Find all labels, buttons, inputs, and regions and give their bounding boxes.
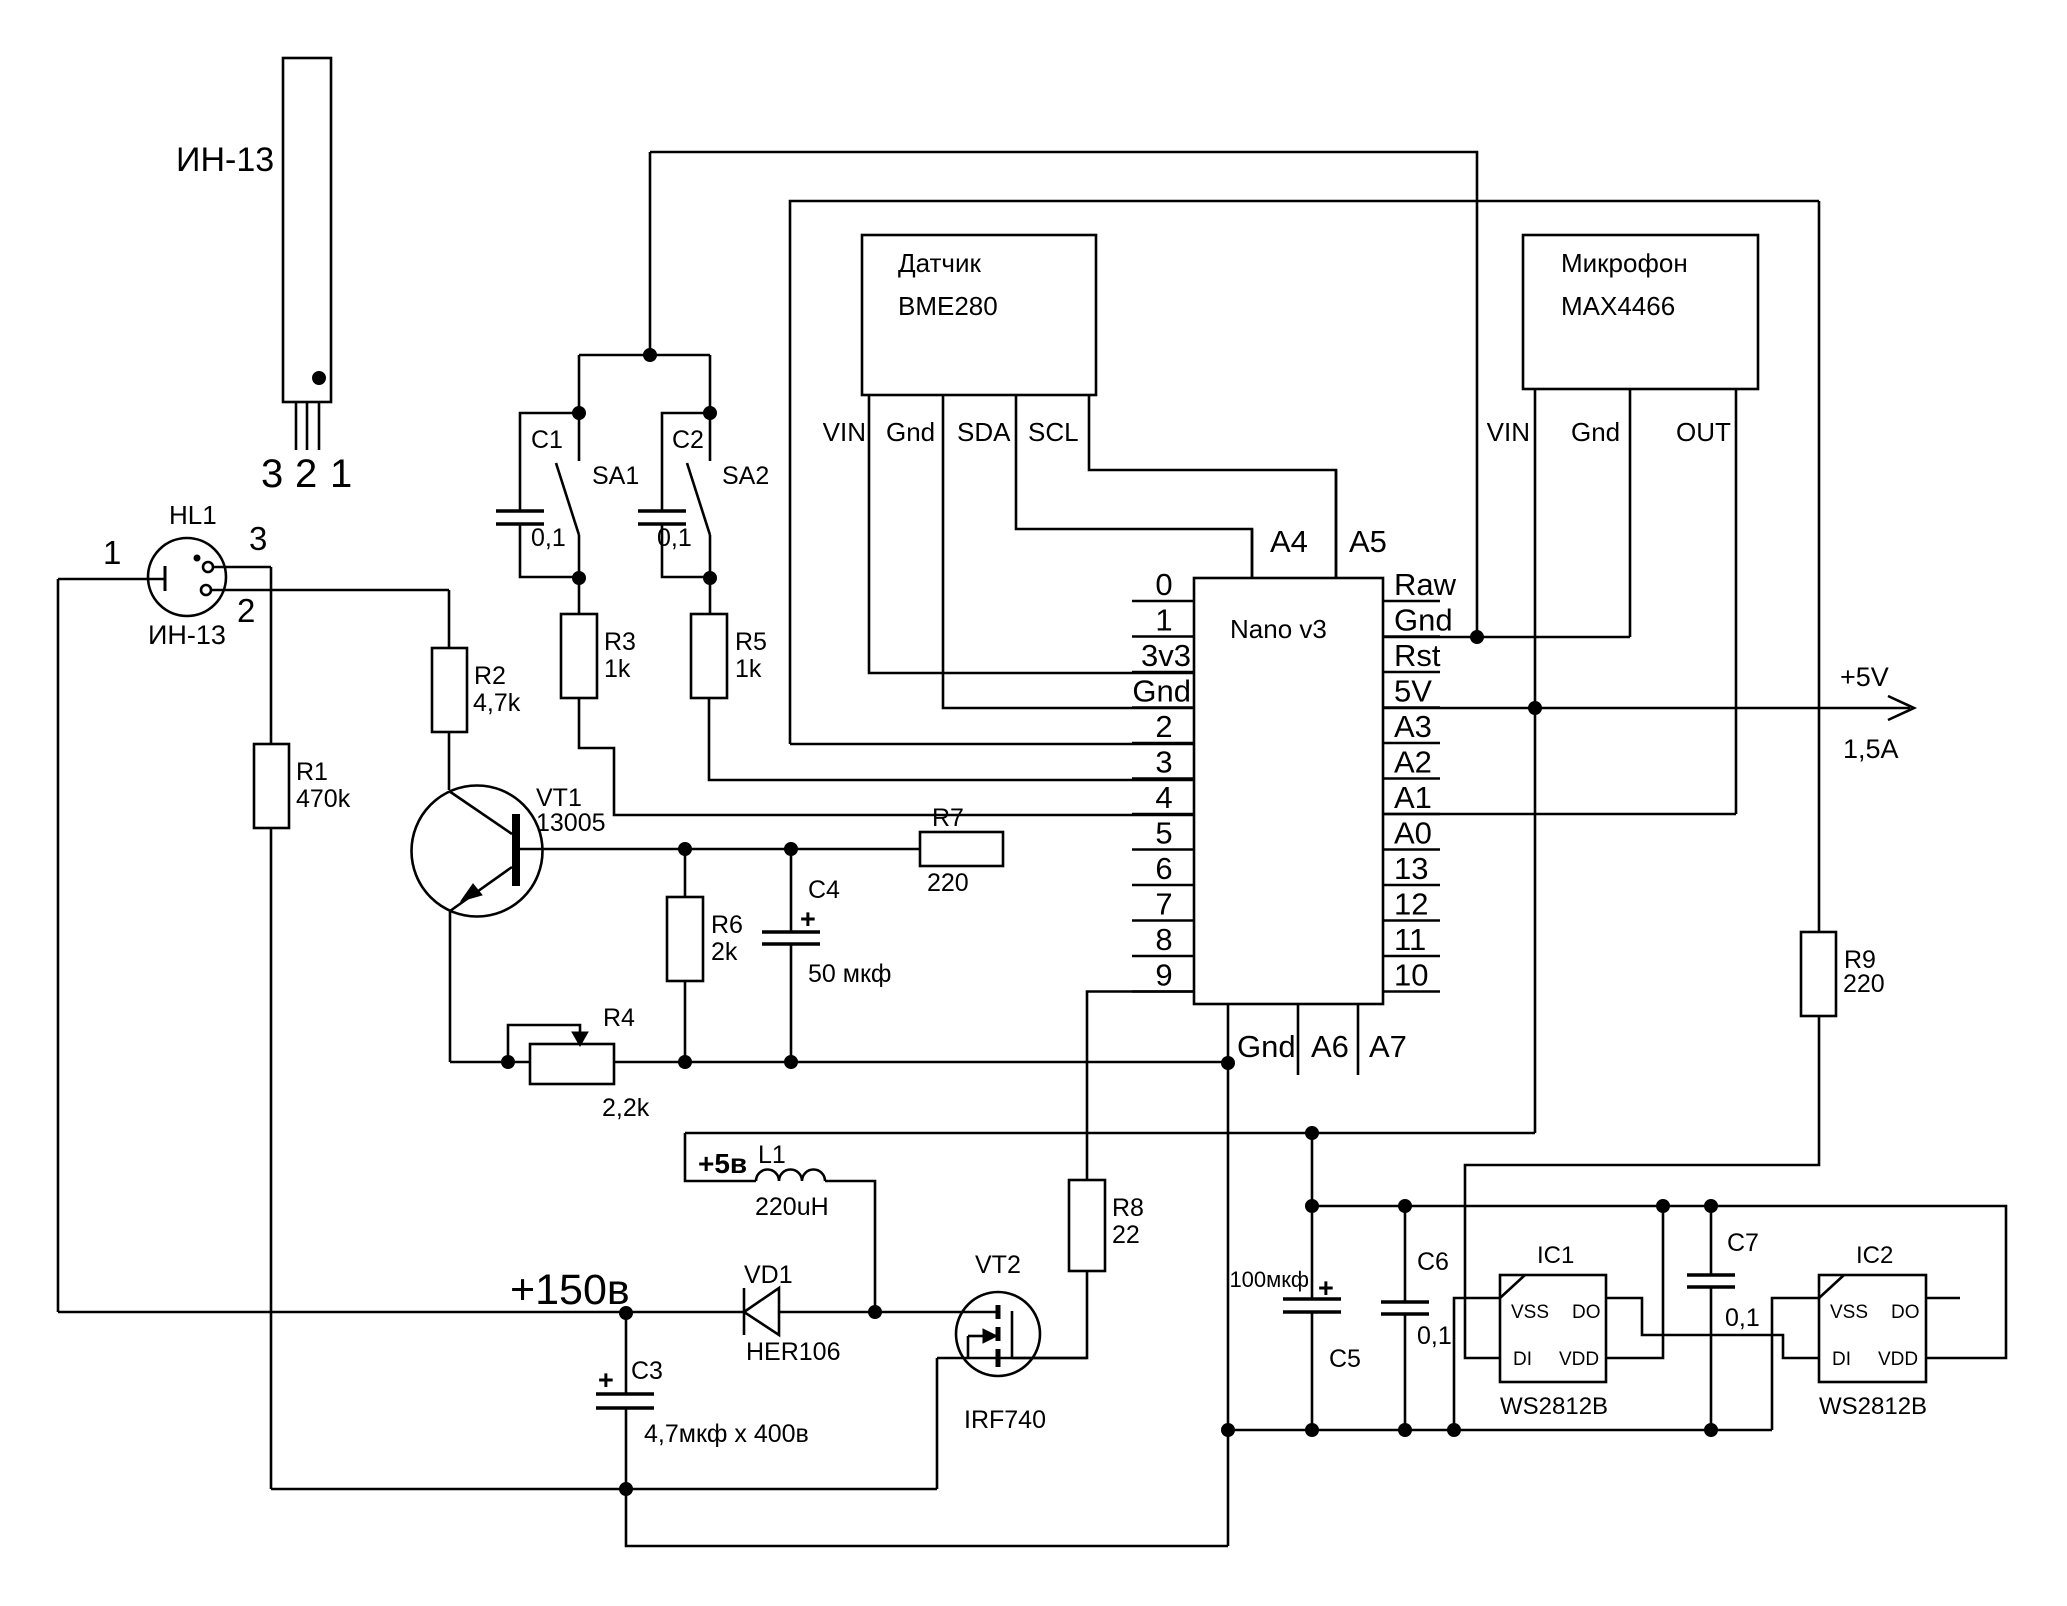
svg-text:Rst: Rst bbox=[1394, 638, 1441, 673]
wire R5 to Nano pin3 bbox=[709, 698, 1194, 780]
BME280 SDA pin wire bbox=[1016, 395, 1252, 578]
svg-text:0,1: 0,1 bbox=[1417, 1322, 1452, 1350]
wire HL1 pin3 down to R1 bbox=[270, 567, 273, 744]
value C2 0,1 bbox=[657, 524, 692, 552]
label C4 bbox=[808, 876, 840, 904]
pin number 3 of tube bbox=[261, 452, 283, 496]
wire down to C1-SA1 node bbox=[578, 355, 581, 413]
value C4 50 mkf bbox=[808, 960, 891, 988]
label Nano v3 bbox=[1230, 614, 1327, 644]
VT2 source-gate bottom line bbox=[937, 1357, 1087, 1360]
label VT1 bbox=[536, 784, 582, 812]
wire top junction down from +5V top line bbox=[649, 152, 652, 355]
R4 wiper hook bbox=[508, 1025, 580, 1062]
label C7 bbox=[1727, 1229, 1759, 1257]
wire R6 to ground line bbox=[684, 981, 687, 1062]
value R9 220 bbox=[1843, 970, 1885, 998]
svg-text:+: + bbox=[800, 904, 816, 934]
wire R1 down to ground corner bbox=[270, 828, 273, 1489]
label C3 bbox=[631, 1357, 663, 1385]
pin label 11 right bbox=[1394, 922, 1426, 957]
svg-text:100мкф: 100мкф bbox=[1229, 1267, 1309, 1292]
svg-text:VDD: VDD bbox=[1559, 1349, 1599, 1370]
label SA2 bbox=[722, 462, 769, 490]
svg-text:10: 10 bbox=[1394, 958, 1428, 993]
pin label VDD of IC1 bbox=[1559, 1349, 1599, 1370]
IC1 DO pin wire bbox=[1606, 1298, 1819, 1358]
pin label SDA of BME280 bbox=[957, 417, 1011, 447]
junction C1-SA1 bottom node bbox=[573, 572, 586, 585]
value C3 4,7mkf x 400v bbox=[644, 1420, 809, 1448]
svg-text:Gnd: Gnd bbox=[1132, 674, 1191, 709]
IN-13 bargraph tube outline bbox=[283, 58, 331, 402]
label +5V bbox=[1840, 662, 1889, 692]
junction C2-SA2 top node bbox=[704, 407, 717, 420]
Nano right pin Rst stub bbox=[1383, 671, 1440, 674]
capacitor C6 top lead bbox=[1404, 1206, 1407, 1302]
Nano right pin 12 stub bbox=[1383, 919, 1440, 922]
junction ground rail at IC1 VSS bbox=[1448, 1424, 1461, 1437]
value C7 0,1 bbox=[1725, 1304, 1760, 1332]
capacitor C6 plates bbox=[1381, 1302, 1429, 1314]
wire VD1 node to VT2 drain bbox=[875, 1311, 996, 1314]
capacitor C5 bottom lead bbox=[1311, 1312, 1314, 1430]
pin label Gnd bottom bbox=[1237, 1029, 1296, 1064]
Nano right pin A1 stub bbox=[1383, 813, 1440, 816]
junction C5 at +5v line bbox=[1306, 1127, 1319, 1140]
wire R2 to VT1 collector bbox=[448, 731, 451, 790]
resistor R2 bbox=[432, 648, 467, 732]
VT1 base bar bbox=[512, 814, 520, 886]
svg-text:470k: 470k bbox=[296, 785, 351, 813]
wire LED +5V rail bbox=[1312, 1206, 2006, 1358]
svg-text:HL1: HL1 bbox=[169, 500, 217, 530]
svg-text:SCL: SCL bbox=[1028, 417, 1079, 447]
value R1 470k bbox=[296, 785, 351, 813]
svg-text:0,1: 0,1 bbox=[1725, 1304, 1760, 1332]
pin label 1 left bbox=[1155, 603, 1172, 638]
svg-text:A3: A3 bbox=[1394, 709, 1432, 744]
label C6 bbox=[1417, 1248, 1449, 1276]
svg-text:DO: DO bbox=[1572, 1302, 1601, 1323]
wire top bus to Gnd net bbox=[650, 152, 1477, 637]
svg-text:0,1: 0,1 bbox=[531, 524, 566, 552]
pin label VSS of IC2 bbox=[1830, 1302, 1868, 1323]
junction top bus bbox=[644, 349, 657, 362]
wire node to R5 bbox=[709, 578, 712, 614]
pin label OUT of MAX4466 bbox=[1676, 417, 1731, 447]
pin number 3 of HL1 bbox=[249, 520, 267, 557]
+5V arrow head bbox=[1888, 696, 1914, 720]
svg-text:VT1: VT1 bbox=[536, 784, 582, 812]
junction 5V net bbox=[1529, 702, 1542, 715]
svg-text:5V: 5V bbox=[1394, 674, 1432, 709]
svg-text:22: 22 bbox=[1112, 1221, 1140, 1249]
wire ground line left bbox=[450, 1061, 1228, 1064]
capacitor C4 plates bbox=[762, 932, 820, 944]
pin label VIN of MAX4466 bbox=[1487, 417, 1530, 447]
pin label DO of IC2 bbox=[1891, 1302, 1920, 1323]
svg-text:IC1: IC1 bbox=[1537, 1242, 1574, 1269]
resistor R7 bbox=[920, 832, 1003, 866]
value VD1 HER106 bbox=[746, 1338, 841, 1366]
MAX4466 VIN pin wire down to +5V net bbox=[1534, 389, 1537, 1133]
resistor R5 bbox=[691, 614, 727, 698]
svg-text:VIN: VIN bbox=[823, 417, 866, 447]
IC Nano v3 box bbox=[1194, 578, 1383, 1004]
wire Nano pin9 to R8 bbox=[1087, 992, 1194, 1181]
pin number 1 of tube bbox=[330, 452, 352, 496]
svg-text:HER106: HER106 bbox=[746, 1338, 841, 1366]
wire node to R3 bbox=[578, 578, 581, 614]
svg-text:13: 13 bbox=[1394, 851, 1428, 886]
svg-text:5: 5 bbox=[1155, 816, 1172, 851]
label +5v bbox=[698, 1148, 747, 1179]
svg-text:13005: 13005 bbox=[536, 809, 606, 837]
capacitor C6 bottom lead bbox=[1404, 1314, 1407, 1430]
IN-13 tube pin 2 lead bbox=[306, 402, 309, 450]
svg-text:IRF740: IRF740 bbox=[964, 1406, 1046, 1434]
pin label 5 left bbox=[1155, 816, 1172, 851]
svg-text:Raw: Raw bbox=[1394, 567, 1457, 602]
wire +5v corner to L1 bbox=[685, 1133, 756, 1181]
junction ground line at Gnd pin bbox=[1222, 1057, 1235, 1070]
svg-text:VSS: VSS bbox=[1511, 1302, 1549, 1323]
svg-text:4,7мкф x 400в: 4,7мкф x 400в bbox=[644, 1420, 809, 1448]
pin label 3v3 left bbox=[1141, 638, 1191, 673]
svg-text:2: 2 bbox=[295, 452, 317, 496]
Nano right pin A3 stub bbox=[1383, 742, 1440, 745]
svg-text:VIN: VIN bbox=[1487, 417, 1530, 447]
svg-text:WS2812B: WS2812B bbox=[1500, 1393, 1608, 1420]
pin label A2 right bbox=[1394, 745, 1432, 780]
junction rail at C7 bbox=[1705, 1200, 1718, 1213]
svg-text:VT2: VT2 bbox=[975, 1251, 1021, 1279]
switch SA2 blade bbox=[687, 463, 710, 535]
MAX4466 OUT pin wire bbox=[1735, 389, 1738, 814]
svg-text:3: 3 bbox=[261, 452, 283, 496]
pin label DO of IC1 bbox=[1572, 1302, 1601, 1323]
junction ground rail at Gnd lead bbox=[1222, 1424, 1235, 1437]
capacitor C2 top lead bbox=[662, 413, 710, 511]
svg-text:1,5A: 1,5A bbox=[1843, 734, 1899, 764]
Nano left pin 3v3 stub bbox=[1132, 671, 1194, 674]
resistor R8 bbox=[1069, 1180, 1105, 1271]
junction R6 bottom bbox=[679, 1056, 692, 1069]
wire HL1 pin3 to R1 bbox=[213, 566, 271, 569]
capacitor C3 top lead bbox=[625, 1313, 628, 1394]
wire C3 bottom to VT2 source bbox=[626, 1488, 937, 1491]
VT1 collector diagonal bbox=[449, 791, 512, 834]
switch SA2 bottom contact bbox=[709, 535, 712, 578]
pin label 5V right bbox=[1394, 674, 1432, 709]
svg-text:ИН-13: ИН-13 bbox=[176, 141, 274, 179]
label VT2 bbox=[975, 1251, 1021, 1279]
pin label VDD of IC2 bbox=[1878, 1349, 1918, 1370]
svg-text:2: 2 bbox=[1155, 709, 1172, 744]
pin label A4 bbox=[1270, 524, 1308, 559]
svg-text:50 мкф: 50 мкф bbox=[808, 960, 891, 988]
svg-text:A6: A6 bbox=[1311, 1029, 1349, 1064]
inductor L1 coil bbox=[756, 1170, 825, 1182]
BME280 Gnd pin wire bbox=[943, 395, 1194, 708]
svg-text:R2: R2 bbox=[474, 662, 506, 690]
pin label 2 left bbox=[1155, 709, 1172, 744]
svg-text:9: 9 bbox=[1155, 958, 1172, 993]
wire HL1 pin2 down to R2 bbox=[448, 590, 451, 648]
value R2 4,7k bbox=[473, 689, 521, 717]
wire R9 net top vertical bbox=[1818, 201, 1821, 932]
potentiometer R4 body bbox=[530, 1044, 614, 1084]
IC1 VDD pin wire bbox=[1606, 1206, 1663, 1358]
svg-text:SDA: SDA bbox=[957, 417, 1011, 447]
svg-text:C7: C7 bbox=[1727, 1229, 1759, 1257]
pin label Raw right bbox=[1394, 567, 1457, 602]
value C5 100mkf bbox=[1229, 1267, 1309, 1292]
value R8 22 bbox=[1112, 1221, 1140, 1249]
label IN-13 tube type bbox=[176, 141, 274, 179]
pin label A5 bbox=[1349, 524, 1387, 559]
svg-text:VD1: VD1 bbox=[744, 1261, 793, 1289]
resistor R9 bbox=[1801, 932, 1836, 1016]
svg-text:C1: C1 bbox=[531, 426, 563, 454]
svg-text:BME280: BME280 bbox=[898, 291, 998, 321]
svg-text:1: 1 bbox=[330, 452, 352, 496]
pin label 0 left bbox=[1155, 567, 1172, 602]
VT2 substrate arrow bbox=[968, 1329, 997, 1343]
svg-text:VDD: VDD bbox=[1878, 1349, 1918, 1370]
IC2 WS2812B box bbox=[1819, 1275, 1926, 1382]
Nano right pin A0 stub bbox=[1383, 848, 1440, 851]
Nano left pin 8 stub bbox=[1132, 955, 1194, 958]
MAX4466 Gnd pin wire bbox=[1629, 389, 1632, 637]
wire HL1 pin1 down left side bbox=[57, 579, 60, 1312]
svg-text:A0: A0 bbox=[1394, 816, 1432, 851]
svg-text:R7: R7 bbox=[932, 804, 964, 832]
junction R4 wiper to line bbox=[502, 1056, 515, 1069]
capacitor C5 plates bbox=[1283, 1299, 1341, 1312]
junction C1-SA1 top node bbox=[573, 407, 586, 420]
svg-text:0: 0 bbox=[1155, 567, 1172, 602]
capacitor C7 bottom lead bbox=[1710, 1287, 1713, 1430]
svg-text:IC2: IC2 bbox=[1856, 1242, 1893, 1269]
HL1 pin2 contact circle bbox=[201, 585, 211, 595]
wire +150V rail bbox=[58, 1311, 626, 1314]
svg-text:C3: C3 bbox=[631, 1357, 663, 1385]
svg-text:+: + bbox=[598, 1365, 614, 1395]
junction ground rail at C7 bbox=[1705, 1424, 1718, 1437]
pin label Gnd left bbox=[1132, 674, 1191, 709]
value IC2 WS2812B bbox=[1819, 1393, 1927, 1420]
value IC1 WS2812B bbox=[1500, 1393, 1608, 1420]
pin number 2 of tube bbox=[295, 452, 317, 496]
svg-text:DI: DI bbox=[1832, 1349, 1851, 1370]
wire pin2 horizontal bbox=[790, 743, 1194, 746]
pin label A1 right bbox=[1394, 780, 1432, 815]
VT2 gate bar bbox=[1011, 1311, 1014, 1358]
wire VT2 source down bbox=[936, 1358, 939, 1489]
wire VT1 emitter down bbox=[449, 911, 452, 1062]
svg-text:4: 4 bbox=[1155, 780, 1172, 815]
Nano right pin 10 stub bbox=[1383, 990, 1440, 993]
IC2 chamfer bbox=[1819, 1275, 1844, 1298]
svg-text:12: 12 bbox=[1394, 887, 1428, 922]
capacitor C7 top lead bbox=[1710, 1206, 1713, 1275]
junction R6 top bbox=[679, 843, 692, 856]
pin label 6 left bbox=[1155, 851, 1172, 886]
Nano right pin 5V stub bbox=[1383, 706, 1440, 709]
pin number 2 of HL1 bbox=[237, 592, 255, 629]
C5 polarity plus bbox=[1318, 1273, 1334, 1303]
wire +5v rail to C5 and 5V net bbox=[685, 1132, 1535, 1135]
value VT2 IRF740 bbox=[964, 1406, 1046, 1434]
diode VD1 cathode bar bbox=[743, 1288, 746, 1335]
pin label 12 right bbox=[1394, 887, 1428, 922]
label R7 bbox=[932, 804, 964, 832]
svg-text:R4: R4 bbox=[603, 1004, 635, 1032]
HL1 internal electrode bar bbox=[164, 566, 167, 591]
junction VD1 L1 VT2 node bbox=[869, 1306, 882, 1319]
value R7 220 bbox=[927, 869, 969, 897]
label C1 bbox=[531, 426, 563, 454]
capacitor C5 top lead bbox=[1311, 1133, 1314, 1299]
svg-text:220: 220 bbox=[927, 869, 969, 897]
label HL1 type IN-13 bbox=[148, 620, 226, 650]
svg-text:+5V: +5V bbox=[1840, 662, 1889, 692]
junction rail at C5 bbox=[1306, 1200, 1319, 1213]
wire +150V to VD1 bbox=[626, 1311, 744, 1314]
pin label 10 right bbox=[1394, 958, 1428, 993]
VT1 emitter diagonal bbox=[450, 867, 512, 911]
resistor R1 bbox=[254, 744, 289, 828]
wire HL1 pin2 to R2 bbox=[211, 589, 449, 592]
IN-13 tube pin 3 lead bbox=[295, 402, 298, 450]
value R4 2,2k bbox=[602, 1094, 650, 1122]
label MAX4466 bbox=[1561, 291, 1675, 321]
label R8 bbox=[1112, 1194, 1144, 1222]
Nano left pin 0 stub bbox=[1132, 600, 1194, 603]
pin label 13 right bbox=[1394, 851, 1428, 886]
resistor R6 bbox=[667, 897, 703, 981]
svg-text:Nano v3: Nano v3 bbox=[1230, 614, 1327, 644]
svg-text:+150в: +150в bbox=[510, 1266, 630, 1314]
wire base line to C4 bbox=[790, 849, 793, 932]
capacitor C1 bottom lead bbox=[520, 524, 579, 577]
wire R8 to VT2 gate bbox=[1012, 1271, 1087, 1358]
junction C4 bottom bbox=[785, 1056, 798, 1069]
label R5 bbox=[735, 628, 767, 656]
capacitor C1 plates bbox=[496, 511, 544, 524]
pin label Gnd of MAX4466 bbox=[1571, 417, 1620, 447]
IN-13 tube anode dot bbox=[313, 372, 326, 385]
svg-text:1: 1 bbox=[1155, 603, 1172, 638]
svg-text:VSS: VSS bbox=[1830, 1302, 1868, 1323]
pin label Gnd of BME280 bbox=[886, 417, 935, 447]
svg-text:6: 6 bbox=[1155, 851, 1172, 886]
transistor VT2 circle bbox=[956, 1292, 1040, 1376]
VT2 channel bar dashes bbox=[996, 1305, 1001, 1367]
junction Gnd net bbox=[1471, 631, 1484, 644]
node +150V label bbox=[510, 1266, 630, 1314]
IC1 WS2812B box bbox=[1500, 1275, 1606, 1382]
capacitor C3 bottom lead bbox=[625, 1408, 628, 1489]
microphone MAX4466 box bbox=[1523, 235, 1758, 389]
svg-text:A1: A1 bbox=[1394, 780, 1432, 815]
svg-text:220uH: 220uH bbox=[755, 1193, 829, 1221]
svg-text:Gnd: Gnd bbox=[886, 417, 935, 447]
label SA1 bbox=[592, 462, 639, 490]
wire bottom ground loop bbox=[626, 1489, 1228, 1546]
pin label DI of IC1 bbox=[1513, 1349, 1532, 1370]
pin label A3 right bbox=[1394, 709, 1432, 744]
HL1 pin3 contact circle bbox=[203, 562, 213, 572]
label HL1 bbox=[169, 500, 217, 530]
VT2 substrate arrow lead bbox=[967, 1336, 970, 1358]
Nano right pin A2 stub bbox=[1383, 777, 1440, 780]
junction C3 bottom node bbox=[620, 1483, 633, 1496]
junction C2-SA2 bottom node bbox=[704, 572, 717, 585]
wire VD1 to L1 node bbox=[779, 1311, 875, 1314]
label R6 bbox=[711, 911, 743, 939]
svg-text:L1: L1 bbox=[758, 1141, 786, 1169]
IN-13 tube pin 1 lead bbox=[318, 402, 321, 450]
switch SA1 top contact bbox=[578, 413, 581, 461]
label R1 bbox=[296, 758, 328, 786]
Nano bottom pin Gnd lead bbox=[1227, 1004, 1230, 1546]
value R3 1k bbox=[604, 655, 631, 683]
lamp HL1 socket circle bbox=[148, 538, 226, 616]
R4 wiper arrowhead bbox=[572, 1032, 588, 1046]
Nano bottom pin A6 stub bbox=[1297, 1004, 1300, 1075]
svg-text:2,2k: 2,2k bbox=[602, 1094, 650, 1122]
Nano left pin Gnd stub bbox=[1132, 706, 1194, 709]
label R9 bbox=[1844, 946, 1876, 974]
capacitor C7 plates bbox=[1687, 1275, 1735, 1287]
svg-text:DI: DI bbox=[1513, 1349, 1532, 1370]
VT1 emitter arrowhead bbox=[461, 884, 482, 901]
label BME280 bbox=[898, 291, 998, 321]
wire R3 to Nano pin4 bbox=[579, 698, 1194, 815]
label R3 bbox=[604, 628, 636, 656]
svg-text:A5: A5 bbox=[1349, 524, 1387, 559]
Nano left pin 3 stub bbox=[1132, 777, 1194, 780]
junction ground rail at C6 bbox=[1399, 1424, 1412, 1437]
junction C4 top bbox=[785, 843, 798, 856]
svg-text:2: 2 bbox=[237, 592, 255, 629]
C3 polarity plus bbox=[598, 1365, 614, 1395]
svg-text:220: 220 bbox=[1843, 970, 1885, 998]
wire pin2 net to R9 net bbox=[790, 201, 1819, 744]
svg-text:4,7k: 4,7k bbox=[473, 689, 521, 717]
label IC2 bbox=[1856, 1242, 1893, 1269]
value R5 1k bbox=[735, 655, 762, 683]
Nano top pin A4 lead bbox=[1251, 529, 1254, 578]
pin label A0 right bbox=[1394, 816, 1432, 851]
Nano left pin 4 stub bbox=[1132, 813, 1194, 816]
pin label DI of IC2 bbox=[1832, 1349, 1851, 1370]
label 1,5A bbox=[1843, 734, 1899, 764]
IC1 chamfer bbox=[1500, 1275, 1525, 1298]
svg-text:Gnd: Gnd bbox=[1237, 1029, 1296, 1064]
svg-text:1k: 1k bbox=[735, 655, 762, 683]
pin label 9 left bbox=[1155, 958, 1172, 993]
label R2 bbox=[474, 662, 506, 690]
pin label SCL of BME280 bbox=[1028, 417, 1079, 447]
svg-text:A7: A7 bbox=[1369, 1029, 1407, 1064]
svg-text:R5: R5 bbox=[735, 628, 767, 656]
value VT1 13005 bbox=[536, 809, 606, 837]
resistor R3 bbox=[561, 614, 597, 698]
